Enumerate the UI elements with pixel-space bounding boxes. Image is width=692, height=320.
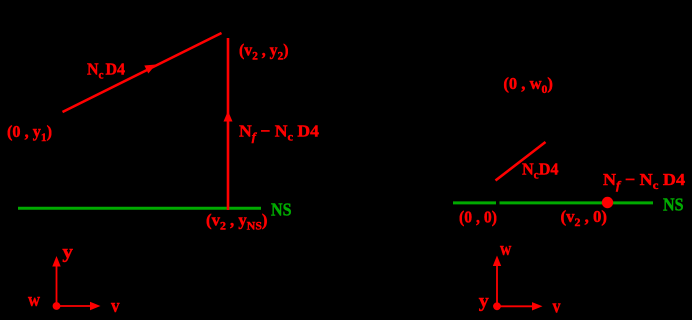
svg-text:(0 , w0): (0 , w0): [503, 74, 552, 96]
svg-text:Nf − Nc D4: Nf − Nc D4: [603, 170, 686, 192]
svg-text:y: y: [62, 242, 73, 263]
svg-text:w: w: [28, 290, 40, 311]
svg-text:Nc D4: Nc D4: [87, 60, 125, 82]
svg-text:(v2 , yNS): (v2 , yNS): [206, 211, 268, 233]
svg-text:y: y: [479, 291, 490, 312]
svg-text:(0 , y1): (0 , y1): [7, 122, 52, 144]
svg-text:Nf − Nc D4: Nf − Nc D4: [239, 122, 320, 144]
svg-text:v: v: [553, 297, 561, 318]
svg-text:NS: NS: [663, 194, 684, 214]
svg-text:w: w: [500, 239, 512, 260]
svg-text:v: v: [111, 296, 120, 317]
svg-text:NS: NS: [271, 200, 292, 220]
svg-text:(v2 , 0): (v2 , 0): [561, 207, 608, 229]
svg-text:(v2 , y2): (v2 , y2): [239, 41, 289, 63]
svg-text:(0 , 0): (0 , 0): [459, 208, 497, 227]
svg-text:NcD4: NcD4: [522, 159, 559, 181]
